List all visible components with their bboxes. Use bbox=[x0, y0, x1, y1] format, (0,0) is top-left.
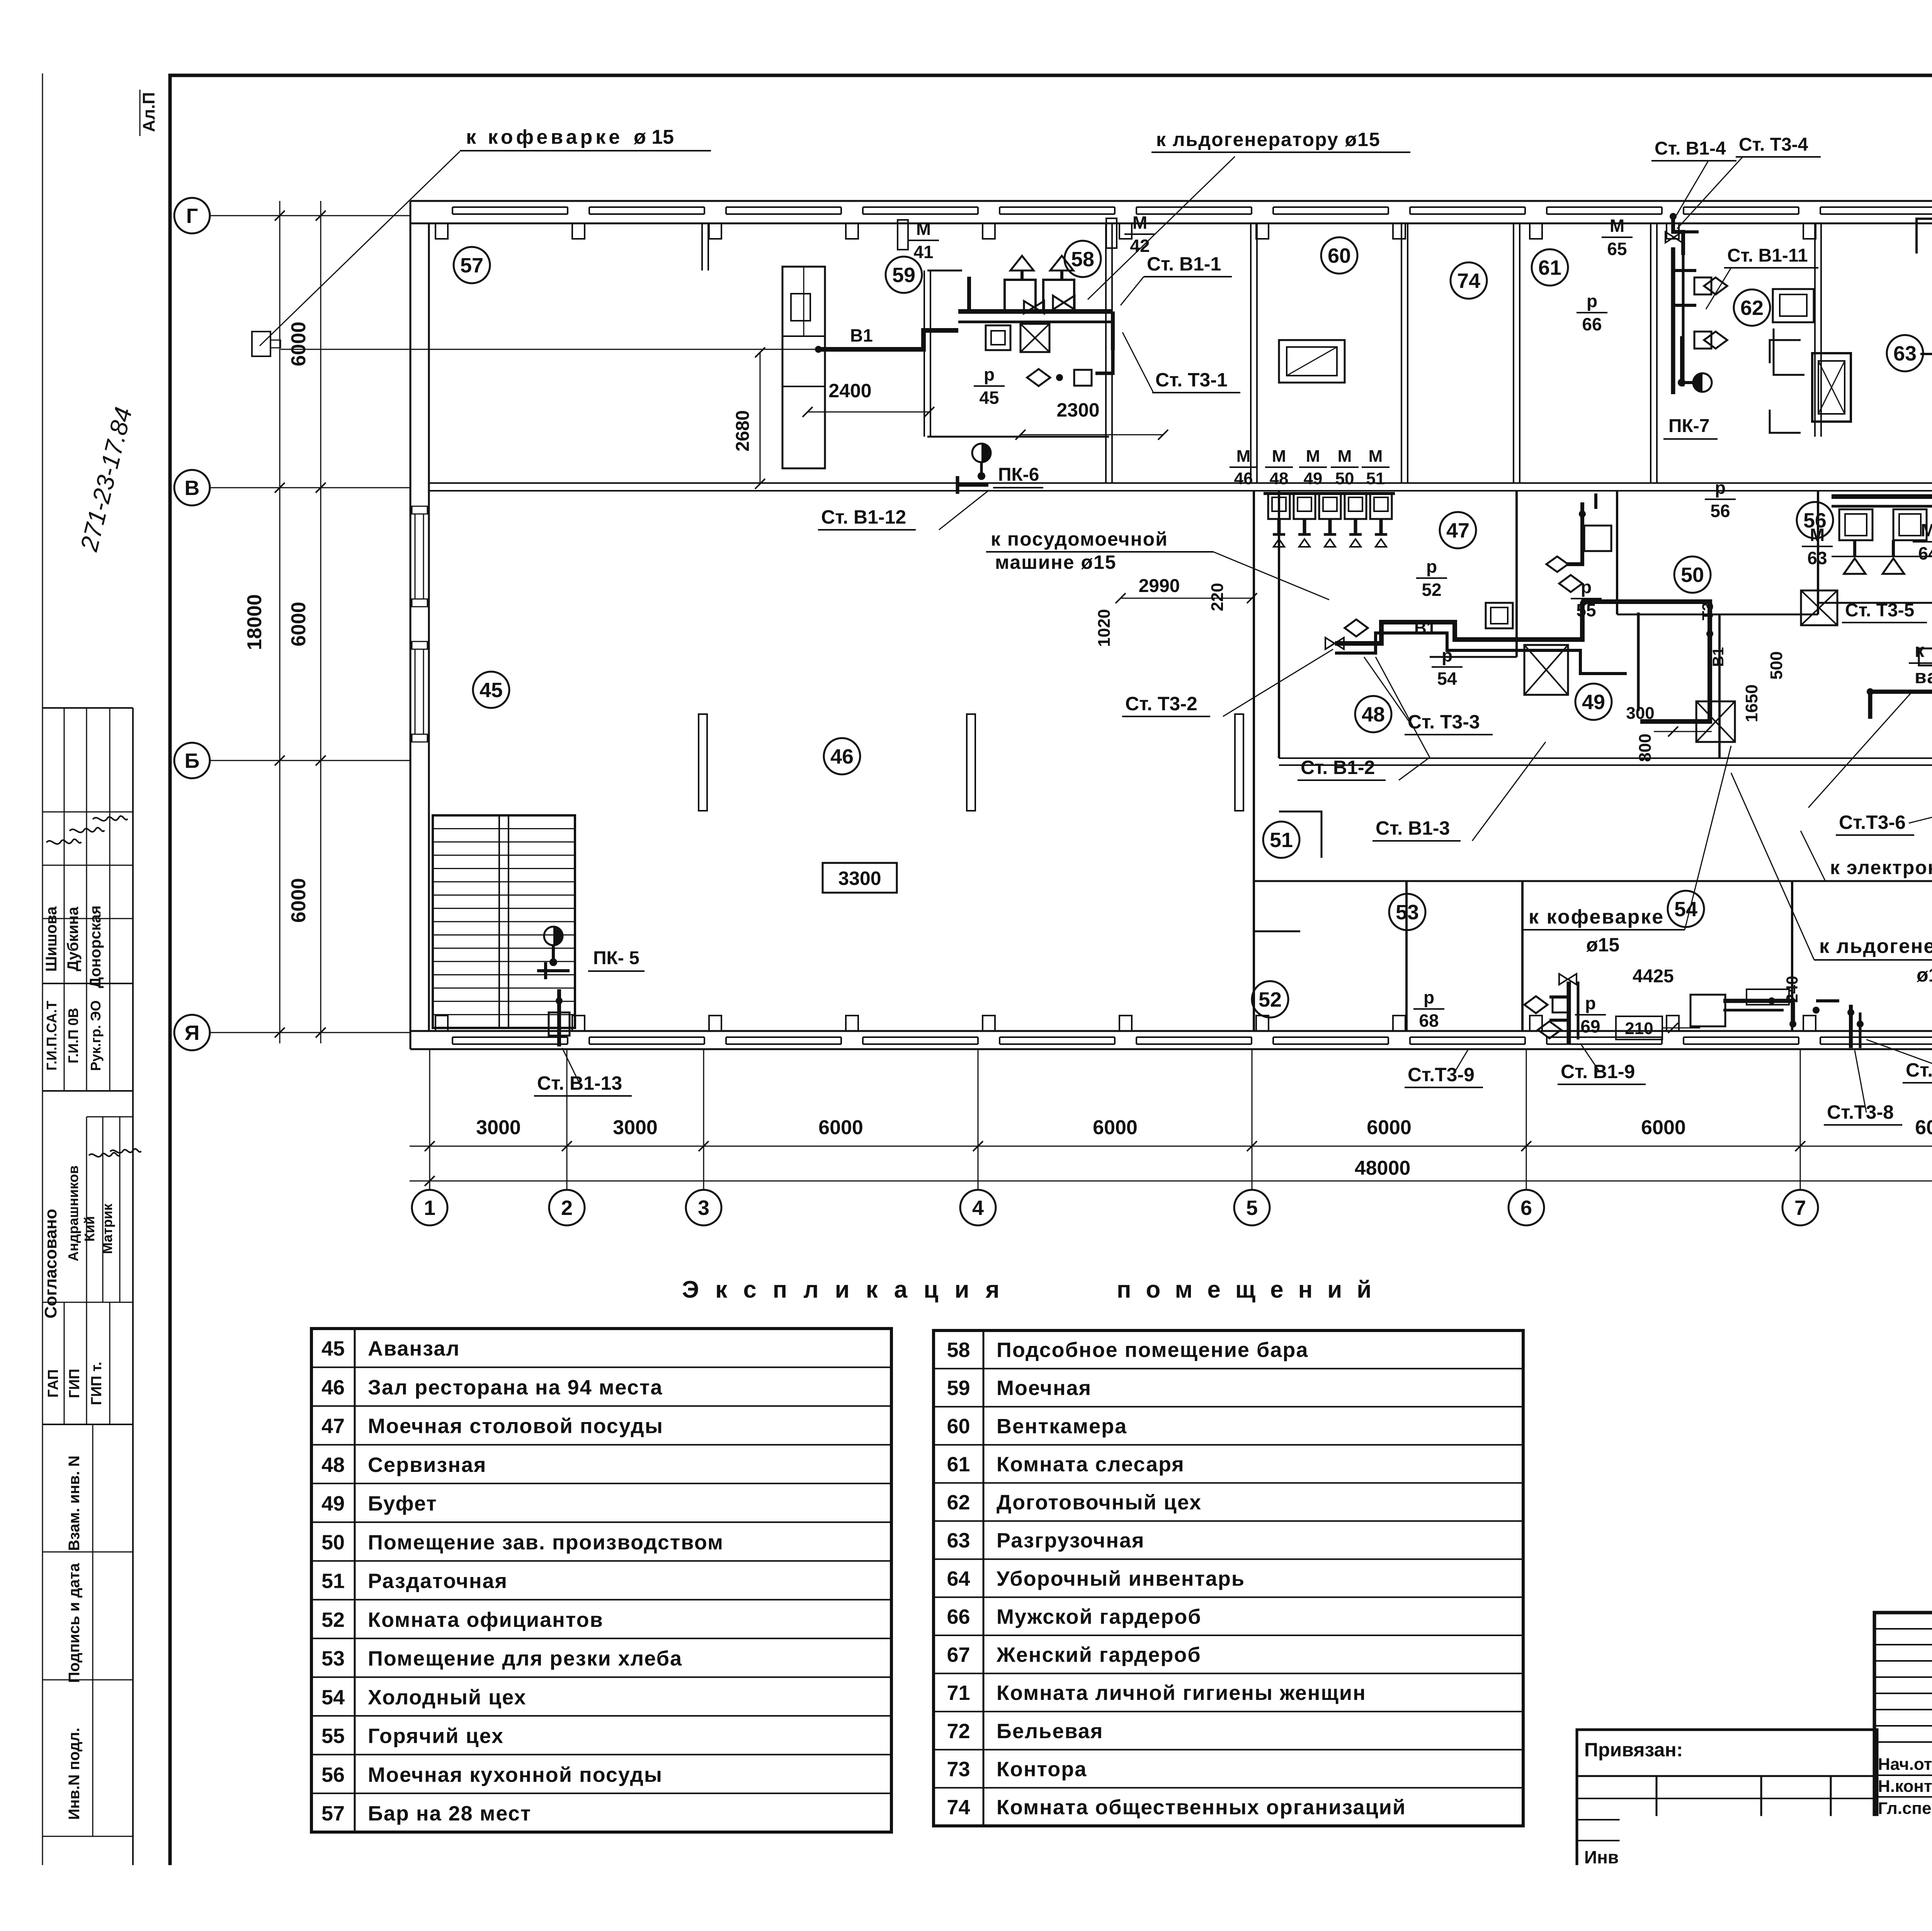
cluster room59 tanks bbox=[1005, 280, 1036, 311]
bottom dim line segments bbox=[410, 1146, 1932, 1147]
svg-text:50: 50 bbox=[1335, 469, 1354, 488]
leader St T3-9 bbox=[1453, 1049, 1468, 1075]
sidebar label underline bbox=[139, 90, 141, 136]
svg-text:51: 51 bbox=[1270, 829, 1293, 852]
svg-text:Ст. Т3-4: Ст. Т3-4 bbox=[1739, 134, 1808, 155]
explication table right grid bbox=[934, 1330, 1523, 1826]
svg-text:63: 63 bbox=[1893, 342, 1917, 365]
B1 inlet thick pipe bbox=[818, 330, 958, 349]
svg-text:Ст. В1-11: Ст. В1-11 bbox=[1727, 245, 1808, 266]
axis row ticks Г bbox=[275, 211, 285, 221]
svg-text:54: 54 bbox=[1437, 669, 1457, 689]
south wall outer line bbox=[410, 1048, 1932, 1050]
title block sig rows bbox=[1874, 1774, 1932, 1776]
svg-text:ПК- 5: ПК- 5 bbox=[593, 948, 639, 968]
svg-text:60: 60 bbox=[1328, 244, 1351, 267]
svg-text:к кофеварке: к кофеварке bbox=[1529, 906, 1664, 928]
svg-text:Помещение зав. производством: Помещение зав. производством bbox=[368, 1531, 724, 1554]
svg-text:Аванзал: Аванзал bbox=[368, 1337, 460, 1360]
svg-text:Взам. инв. N: Взам. инв. N bbox=[66, 1456, 83, 1551]
cluster room54 bottom bbox=[1723, 1001, 1793, 1024]
svg-text:к электрокипятильнику: к электрокипятильнику bbox=[1830, 857, 1932, 878]
axis column stub 7 bbox=[1800, 1049, 1801, 1190]
leader k posudomoechnoy bbox=[1213, 552, 1329, 600]
label 3300 box bbox=[823, 863, 897, 893]
svg-text:Инв.N подл.: Инв.N подл. bbox=[66, 1728, 83, 1820]
cluster room59 main pipes bbox=[958, 309, 1113, 314]
explication table right row 62 bbox=[934, 1482, 1523, 1484]
svg-text:57: 57 bbox=[460, 254, 483, 277]
sidebar h line 2 bbox=[43, 983, 133, 984]
bottom dim tick bbox=[699, 1141, 709, 1151]
cluster lower xbox bbox=[1696, 701, 1735, 742]
svg-text:6000: 6000 bbox=[287, 322, 310, 366]
svg-text:48: 48 bbox=[1362, 703, 1385, 726]
axis row circle В bbox=[174, 470, 210, 505]
B1 inlet box bbox=[252, 332, 270, 356]
axis column circle 4 bbox=[960, 1190, 996, 1225]
svg-text:54: 54 bbox=[321, 1686, 345, 1709]
svg-text:3000: 3000 bbox=[476, 1116, 521, 1139]
svg-text:800: 800 bbox=[1636, 733, 1655, 762]
svg-text:М: М bbox=[1369, 447, 1383, 466]
axis row circle Б bbox=[174, 743, 210, 778]
svg-text:1: 1 bbox=[424, 1196, 435, 1220]
partition 57|59 stub bbox=[701, 224, 703, 271]
svg-text:45: 45 bbox=[480, 679, 503, 702]
svg-text:6000: 6000 bbox=[1367, 1116, 1412, 1139]
svg-text:240: 240 bbox=[1783, 976, 1801, 1003]
svg-text:Мужской гардероб: Мужской гардероб bbox=[997, 1605, 1202, 1628]
explication table left row 46 bbox=[311, 1366, 891, 1368]
room circle 63 bbox=[1887, 335, 1923, 371]
vent window room60 bbox=[1279, 340, 1345, 383]
leader St V1-13 bbox=[562, 1048, 580, 1084]
rooms 53|54 wall bbox=[1521, 881, 1524, 1031]
room circle 49 bbox=[1575, 684, 1612, 720]
sidebar divider v main bbox=[132, 708, 134, 1870]
svg-text:41: 41 bbox=[913, 242, 933, 262]
bottom dim tick bbox=[562, 1141, 572, 1151]
svg-text:Ал.П: Ал.П bbox=[139, 92, 158, 132]
svg-text:М: М bbox=[1236, 447, 1251, 466]
dim 210 box bbox=[1616, 1016, 1662, 1040]
svg-text:Шишова: Шишова bbox=[43, 906, 60, 972]
axis row line Г bbox=[210, 215, 410, 216]
svg-text:72: 72 bbox=[947, 1720, 970, 1743]
bottom dim tick bbox=[1521, 1141, 1531, 1151]
leader St T3-1 bbox=[1122, 332, 1153, 393]
svg-text:49: 49 bbox=[1304, 469, 1323, 488]
svg-text:54: 54 bbox=[1674, 898, 1697, 921]
bottom dim tick bbox=[1795, 1141, 1805, 1151]
leader St V1-4 bbox=[1674, 162, 1708, 219]
room56 shelf bbox=[1832, 556, 1932, 557]
sidebar h line 1 bbox=[43, 707, 133, 709]
svg-text:51: 51 bbox=[321, 1570, 345, 1593]
rooms 54|55 wall bbox=[1791, 881, 1793, 1031]
leader St T3-8 bbox=[1855, 1050, 1866, 1113]
bottom dim tick bbox=[425, 1141, 435, 1151]
explication table right row 64 bbox=[934, 1558, 1523, 1560]
cluster room59 valves bbox=[1053, 296, 1075, 310]
axis row ticks Б bbox=[275, 755, 285, 766]
cluster central pipes bbox=[1335, 602, 1582, 643]
explication table right row 74 bbox=[934, 1787, 1523, 1788]
washbasin row M46-51 bbox=[1268, 493, 1290, 519]
svg-text:300: 300 bbox=[1626, 704, 1654, 723]
room circle 48 bbox=[1355, 696, 1391, 732]
axis column circle 7 bbox=[1782, 1190, 1818, 1225]
svg-text:Моечная: Моечная bbox=[997, 1376, 1092, 1400]
room circle 57 bbox=[454, 247, 490, 283]
hall interior column 3 bbox=[1235, 714, 1243, 811]
leader St T3-4 bbox=[1677, 157, 1743, 229]
explication table left row 49 bbox=[311, 1483, 891, 1484]
svg-text:Доготовочный цех: Доготовочный цех bbox=[997, 1491, 1202, 1514]
svg-text:52: 52 bbox=[321, 1608, 345, 1632]
svg-text:1650: 1650 bbox=[1742, 684, 1761, 722]
svg-text:45: 45 bbox=[321, 1337, 345, 1360]
svg-text:Подсобное помещение бара: Подсобное помещение бара bbox=[997, 1339, 1308, 1362]
svg-text:Холодный цех: Холодный цех bbox=[368, 1686, 527, 1709]
svg-text:45: 45 bbox=[979, 388, 999, 408]
leader ldogen bottom bbox=[1731, 773, 1814, 960]
south wall windows bbox=[435, 1016, 448, 1031]
leader St T3-3 bbox=[1364, 657, 1410, 722]
svg-text:помещений: помещений bbox=[1117, 1276, 1386, 1303]
dim 2300 bbox=[1020, 434, 1163, 436]
room circle 60 bbox=[1321, 237, 1357, 274]
explication table right row 73 bbox=[934, 1749, 1523, 1751]
svg-text:62: 62 bbox=[1740, 296, 1764, 320]
sidebar signature 1 bbox=[46, 839, 81, 844]
svg-text:р: р bbox=[1581, 577, 1592, 597]
partition 60|74 bbox=[1401, 224, 1402, 483]
svg-text:2: 2 bbox=[561, 1196, 573, 1220]
explication table left row 53 bbox=[311, 1638, 891, 1639]
cluster room56 bbox=[1832, 494, 1932, 499]
axis row ticks В bbox=[275, 483, 285, 493]
svg-text:68: 68 bbox=[1419, 1011, 1439, 1031]
dim 2400 bbox=[808, 412, 929, 413]
svg-text:6000: 6000 bbox=[818, 1116, 863, 1139]
svg-text:1020: 1020 bbox=[1095, 609, 1114, 647]
axis row circle Я bbox=[174, 1015, 210, 1050]
title block thin rows bbox=[1874, 1628, 1932, 1630]
top wall outer line bbox=[410, 200, 1932, 202]
svg-text:Женский гардероб: Женский гардероб bbox=[996, 1643, 1201, 1667]
explication table left row 54 bbox=[311, 1676, 891, 1678]
svg-text:48: 48 bbox=[1270, 469, 1289, 488]
sidebar sig 4 bbox=[89, 1153, 120, 1157]
svg-text:Сервизная: Сервизная bbox=[368, 1453, 486, 1477]
cluster central diamonds bbox=[1345, 619, 1368, 636]
svg-text:18000: 18000 bbox=[243, 594, 266, 650]
partition room59 left bbox=[923, 271, 925, 437]
svg-text:74: 74 bbox=[1457, 269, 1480, 293]
svg-text:63: 63 bbox=[1807, 548, 1827, 568]
svg-text:50: 50 bbox=[1681, 563, 1704, 587]
svg-text:2400: 2400 bbox=[828, 380, 871, 402]
explication table left row 51 bbox=[311, 1560, 891, 1562]
west wall inner bbox=[428, 223, 430, 1031]
kitchen wall row Б upper bbox=[1279, 757, 1932, 759]
PK-7 riser bbox=[1678, 379, 1685, 386]
svg-text:69: 69 bbox=[1580, 1016, 1600, 1036]
partition 49 right bbox=[1718, 614, 1721, 758]
cluster room59 basin bbox=[986, 325, 1010, 350]
leader St T3-2 bbox=[1223, 649, 1333, 716]
svg-text:Раздаточная: Раздаточная bbox=[368, 1570, 508, 1593]
svg-text:Ст. В1-3: Ст. В1-3 bbox=[1376, 817, 1450, 839]
svg-text:Г.И.П 0В: Г.И.П 0В bbox=[65, 1008, 81, 1063]
axis row line Я bbox=[210, 1032, 410, 1033]
hall 46 east wall bbox=[1253, 491, 1255, 1031]
svg-text:Н.контр.: Н.контр. bbox=[1878, 1777, 1932, 1796]
svg-text:р: р bbox=[1423, 987, 1434, 1007]
corridor wall row В upper bbox=[429, 482, 1932, 484]
svg-text:49: 49 bbox=[321, 1492, 345, 1515]
explication table left row 50 bbox=[311, 1521, 891, 1523]
bottom dim tick bbox=[973, 1141, 983, 1151]
svg-text:Т3: Т3 bbox=[1699, 602, 1716, 621]
room circle 61 bbox=[1532, 249, 1568, 286]
explication table left row 48 bbox=[311, 1444, 891, 1446]
south wall inner line bbox=[410, 1030, 1932, 1032]
svg-text:62: 62 bbox=[947, 1491, 970, 1514]
svg-text:73: 73 bbox=[947, 1757, 970, 1781]
cluster V1-4 riser top elbow bbox=[1673, 216, 1683, 255]
corridor wall row В lower bbox=[429, 490, 1932, 492]
svg-text:к льдогенератору: к льдогенератору bbox=[1819, 935, 1932, 958]
sidebar grid 3 bbox=[64, 1302, 65, 1424]
svg-text:58: 58 bbox=[947, 1339, 970, 1362]
svg-text:56: 56 bbox=[1710, 501, 1730, 521]
svg-text:53: 53 bbox=[321, 1647, 345, 1670]
explication table left row 57 bbox=[311, 1793, 891, 1794]
leader St V1-1 bbox=[1121, 277, 1144, 305]
cluster room54 top bbox=[1870, 657, 1932, 719]
svg-text:6000: 6000 bbox=[1093, 1116, 1138, 1139]
svg-text:Ст. В1-12: Ст. В1-12 bbox=[821, 506, 906, 528]
svg-text:Ст. В1-9: Ст. В1-9 bbox=[1561, 1061, 1635, 1082]
svg-text:Ст. В1-1: Ст. В1-1 bbox=[1147, 253, 1221, 275]
svg-text:Ст.Т3-9: Ст.Т3-9 bbox=[1408, 1064, 1475, 1085]
explication table left grid bbox=[311, 1329, 891, 1832]
svg-text:3000: 3000 bbox=[613, 1116, 658, 1139]
room circle 52 bbox=[1252, 981, 1288, 1017]
svg-text:Ст. Т3-5: Ст. Т3-5 bbox=[1845, 600, 1914, 621]
sidebar block grid 2 bbox=[86, 1117, 87, 1302]
svg-text:47: 47 bbox=[1446, 519, 1469, 542]
svg-text:р: р bbox=[1585, 993, 1596, 1013]
room51 walls bbox=[1279, 812, 1321, 858]
svg-text:М: М bbox=[1306, 447, 1320, 466]
svg-text:Зал ресторана на 94 места: Зал ресторана на 94 места bbox=[368, 1376, 663, 1399]
hall interior column 2 bbox=[967, 714, 975, 811]
explication table right row 72 bbox=[934, 1711, 1523, 1712]
sheet cut edge line left bbox=[42, 73, 43, 1905]
sink M42 bbox=[1106, 218, 1117, 248]
svg-text:р: р bbox=[1715, 478, 1726, 498]
room 59 south wall bbox=[927, 436, 1109, 438]
svg-text:67: 67 bbox=[947, 1643, 970, 1667]
sidebar names block grid bbox=[43, 812, 133, 813]
bar counter room57 bbox=[782, 267, 825, 468]
explication table right row 60 bbox=[934, 1406, 1523, 1407]
svg-text:Донорская: Донорская bbox=[87, 905, 104, 988]
room62 sink box bbox=[1773, 289, 1814, 322]
left dim line 18000 bbox=[279, 201, 281, 1043]
svg-text:ГИП т.: ГИП т. bbox=[88, 1362, 105, 1405]
svg-text:Ст.Т3-6: Ст.Т3-6 bbox=[1839, 812, 1906, 833]
axis column circle 6 bbox=[1509, 1190, 1544, 1225]
svg-text:56: 56 bbox=[321, 1763, 345, 1786]
B1 inlet thin pipe bbox=[281, 349, 818, 350]
svg-text:57: 57 bbox=[321, 1802, 345, 1825]
svg-text:Разгрузочная: Разгрузочная bbox=[997, 1529, 1145, 1552]
partition 58|60 bbox=[1250, 224, 1252, 483]
service lift walls bbox=[1770, 340, 1801, 363]
svg-text:ø15: ø15 bbox=[1917, 964, 1932, 986]
leader k ldogeneratoru bbox=[1088, 157, 1235, 299]
svg-text:ПК-7: ПК-7 bbox=[1668, 416, 1709, 436]
top wall inner line bbox=[410, 223, 1932, 225]
svg-text:61: 61 bbox=[947, 1453, 970, 1476]
svg-text:ПК-6: ПК-6 bbox=[998, 464, 1039, 485]
axis column stub 1 bbox=[429, 1049, 430, 1190]
privyazan box bbox=[1577, 1730, 1877, 1870]
partition 47 right bbox=[1616, 491, 1618, 614]
PK-5 riser bbox=[549, 958, 557, 966]
svg-text:3: 3 bbox=[698, 1196, 709, 1220]
stair left block bbox=[433, 815, 575, 1028]
svg-text:В1: В1 bbox=[1710, 647, 1727, 667]
svg-text:к посудомоечной: к посудомоечной bbox=[991, 528, 1168, 550]
room circle 58 bbox=[1065, 241, 1101, 277]
PK-6 riser bbox=[978, 472, 985, 480]
svg-text:61: 61 bbox=[1538, 256, 1561, 279]
svg-text:64: 64 bbox=[947, 1567, 970, 1590]
cluster room50 pipes bbox=[1567, 502, 1582, 564]
svg-text:63: 63 bbox=[947, 1529, 970, 1552]
leader St V1-3 bbox=[1472, 742, 1546, 841]
svg-text:р: р bbox=[984, 364, 995, 384]
partition 58 right bbox=[1105, 224, 1107, 483]
axis column stub 5 bbox=[1252, 1049, 1253, 1190]
rooms 52|53 wall bbox=[1405, 881, 1408, 1031]
room 59 door gap wall bbox=[927, 270, 962, 272]
explication table left row 55 bbox=[311, 1715, 891, 1717]
svg-text:Моечная кухонной посуды: Моечная кухонной посуды bbox=[368, 1763, 663, 1786]
axis column circle 1 bbox=[412, 1190, 447, 1225]
svg-text:6000: 6000 bbox=[1915, 1116, 1932, 1139]
sidebar sig 5 bbox=[110, 1149, 141, 1153]
svg-text:Бар на 28 мест: Бар на 28 мест bbox=[368, 1802, 531, 1825]
svg-text:Рук.гр. ЭО: Рук.гр. ЭО bbox=[88, 1000, 104, 1071]
svg-text:58: 58 bbox=[1071, 248, 1094, 271]
cluster room59 branch bbox=[1095, 350, 1113, 373]
room circle 56 bbox=[1797, 502, 1833, 538]
svg-text:Г: Г bbox=[186, 204, 198, 228]
svg-text:4425: 4425 bbox=[1633, 966, 1674, 987]
svg-text:Андрашников: Андрашников bbox=[65, 1165, 81, 1261]
axis column stub 6 bbox=[1526, 1049, 1527, 1190]
west wall outer bbox=[410, 201, 412, 1049]
svg-text:48: 48 bbox=[321, 1453, 345, 1477]
svg-text:65: 65 bbox=[1607, 239, 1627, 259]
partition 74|61 bbox=[1513, 224, 1514, 483]
room circle 50 bbox=[1674, 556, 1711, 593]
sidebar signature 2 bbox=[70, 828, 104, 832]
sidebar h line 3 bbox=[43, 1090, 133, 1092]
svg-text:74: 74 bbox=[947, 1796, 970, 1819]
svg-text:46: 46 bbox=[321, 1376, 345, 1399]
svg-text:Комната общественных организ: Комната общественных организаций bbox=[997, 1796, 1406, 1819]
svg-text:к кофеварке: к кофеварке bbox=[466, 126, 623, 148]
room 56 south wall bbox=[1818, 602, 1932, 604]
axis column circle 2 bbox=[549, 1190, 585, 1225]
washbasin row feed pipe bbox=[1264, 492, 1395, 495]
privyazan grid bbox=[1577, 1775, 1877, 1777]
svg-text:Ст.Т3-8: Ст.Т3-8 bbox=[1827, 1101, 1894, 1123]
sidebar line 5 bbox=[43, 1679, 133, 1681]
svg-text:Ст. Т3-1: Ст. Т3-1 bbox=[1155, 369, 1228, 391]
svg-text:64: 64 bbox=[1918, 543, 1932, 563]
svg-text:Г.И.П.СА.Т: Г.И.П.СА.Т bbox=[44, 1001, 60, 1071]
left dim line 6000s bbox=[320, 201, 321, 1043]
room circle 46 bbox=[824, 738, 860, 774]
explication table right row 63 bbox=[934, 1520, 1523, 1522]
svg-text:М: М bbox=[1810, 525, 1825, 545]
bottom dim tick end L bbox=[425, 1176, 435, 1186]
svg-text:Буфет: Буфет bbox=[368, 1492, 437, 1515]
svg-text:3300: 3300 bbox=[838, 868, 881, 889]
room62 wall stub bbox=[1774, 328, 1804, 375]
svg-text:к льдогенератору ø15: к льдогенератору ø15 bbox=[1156, 129, 1381, 150]
svg-text:50: 50 bbox=[321, 1531, 345, 1554]
bottom dim tick bbox=[1247, 1141, 1257, 1151]
cluster central basin bbox=[1486, 603, 1513, 628]
partition 62|63 bbox=[1814, 224, 1816, 437]
room circle 53 bbox=[1389, 894, 1425, 930]
axis column circle 5 bbox=[1234, 1190, 1270, 1225]
explication table right row 71 bbox=[934, 1673, 1523, 1674]
leader St V1-8 bbox=[1866, 1040, 1932, 1070]
svg-text:Горячий цех: Горячий цех bbox=[368, 1725, 504, 1748]
svg-text:ГИП: ГИП bbox=[66, 1369, 83, 1398]
bottom dim line total bbox=[410, 1181, 1932, 1182]
room circle 59 bbox=[886, 257, 922, 293]
axis column stub 3 bbox=[703, 1049, 704, 1190]
svg-text:В: В bbox=[185, 476, 200, 500]
svg-text:5: 5 bbox=[1246, 1196, 1258, 1220]
svg-text:2680: 2680 bbox=[733, 410, 753, 452]
svg-text:220: 220 bbox=[1208, 583, 1227, 611]
svg-text:Нач.отд.: Нач.отд. bbox=[1878, 1755, 1932, 1774]
west wall opening 2 bbox=[415, 649, 416, 734]
svg-text:47: 47 bbox=[321, 1415, 345, 1438]
service lift bbox=[1812, 353, 1851, 422]
leader St V1-2 bbox=[1399, 757, 1430, 780]
leader St V1-9 bbox=[1580, 1043, 1600, 1072]
V1-13 riser bbox=[557, 989, 561, 1046]
svg-text:Венткамера: Венткамера bbox=[997, 1415, 1127, 1438]
partition 50 right bbox=[1817, 491, 1819, 614]
room circle 47 bbox=[1440, 512, 1476, 548]
svg-text:Привязан:: Привязан: bbox=[1584, 1739, 1683, 1761]
